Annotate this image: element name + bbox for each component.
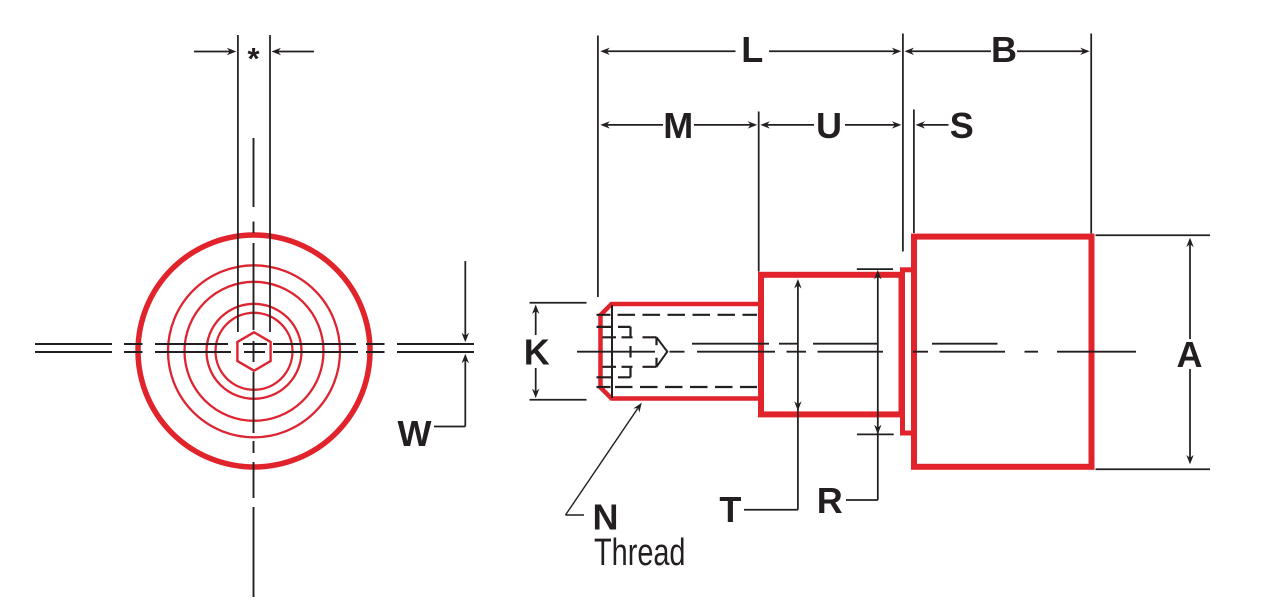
hex socket hidden lines top (597, 327, 657, 337)
flange circle (168, 265, 340, 437)
hex socket hidden lines bottom (597, 367, 657, 378)
extension line M/U boundary (758, 112, 760, 272)
svg-text:B: B (991, 29, 1017, 70)
W dim upper arrow (464, 261, 466, 337)
extension line L/B boundary (902, 34, 904, 252)
R dimension line with arrows (874, 270, 881, 280)
K extension lines (530, 303, 587, 400)
R extension lines (857, 269, 894, 434)
svg-text:T: T (719, 489, 741, 530)
svg-text:M: M (663, 105, 693, 146)
star dim extension lines (238, 35, 270, 332)
socket cone point (657, 337, 668, 367)
side view upper parallel line (692, 343, 998, 345)
leader arrow to thread (633, 403, 641, 413)
extension line thread left (597, 36, 599, 298)
knob outer circle (138, 235, 370, 467)
thread body outline (601, 304, 762, 399)
svg-text:Thread: Thread (594, 532, 686, 574)
U dimension (760, 121, 770, 128)
svg-text:L: L (741, 29, 763, 70)
knob outline (914, 237, 1092, 467)
A extension lines (1096, 235, 1211, 469)
star dim right arrow (278, 51, 315, 53)
thread minor line top (dashed) (597, 314, 758, 316)
chamfer line (611, 305, 613, 398)
svg-text:S: S (950, 105, 974, 146)
R leader connector (846, 499, 878, 501)
S dimension (916, 121, 926, 128)
flange outline (903, 270, 915, 433)
W dim lower arrow (464, 360, 466, 427)
W leader connector (434, 426, 465, 428)
hex socket (237, 332, 270, 370)
shoulder circle (185, 282, 324, 421)
horizontal slot line lower (35, 351, 474, 353)
svg-text:*: * (247, 41, 260, 76)
horizontal slot line upper (35, 343, 474, 345)
svg-text:U: U (816, 105, 842, 146)
T dimension line with arrows (794, 279, 801, 289)
shoulder outline (761, 275, 902, 415)
svg-text:R: R (817, 480, 843, 521)
side view centerline (577, 351, 1136, 353)
star dim left arrow (194, 51, 231, 53)
K arrows (532, 305, 539, 315)
T leader connector (744, 509, 798, 511)
vertical centerline (253, 138, 255, 597)
extension line S knob face (913, 110, 915, 234)
L dimension (600, 48, 610, 55)
svg-text:W: W (398, 413, 432, 454)
thread OD circle (207, 304, 302, 399)
hex socket vertical hidden lines (631, 327, 657, 377)
thread minor line bottom (dashed) (597, 386, 758, 388)
extension line knob right (1090, 34, 1092, 234)
B dimension (905, 48, 915, 55)
M dimension (600, 121, 610, 128)
svg-text:K: K (524, 332, 550, 373)
thread minor circle (216, 313, 293, 390)
A arrows (1186, 238, 1193, 248)
svg-text:A: A (1177, 334, 1203, 375)
